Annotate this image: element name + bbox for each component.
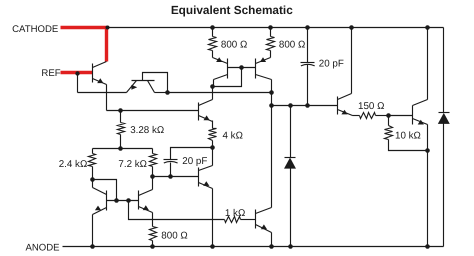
wire 150 out lead [376,115,389,117]
wire mid rail right [168,92,272,94]
transistor QR base bar [138,191,140,210]
junction 2.4k bottom [90,177,95,182]
transistor QL emitter [93,208,107,215]
resistor 1 kOhm [225,217,241,223]
wire Q2 base loop [143,73,168,93]
resistor 2.4 kOhm [89,154,96,167]
junction top bus / Q9 [425,25,430,30]
junction diode branch [288,103,293,108]
wire ref (red highlight) [61,71,93,74]
transistor Q1 emitter arrow [97,78,103,83]
wire 3.28k top lead [120,111,122,123]
wire right edge lower [443,124,445,247]
transistor Q4 base bar [255,210,257,229]
junction mirror-collector node [210,84,215,89]
wire Q8 collector rise [351,28,353,94]
transistor Q4 emitter [256,225,272,233]
resistor 800 Ohm left [209,37,217,51]
transistor Q6 base bar [198,103,200,121]
wire mirror base tie [228,67,256,69]
wire 1k out lead [241,219,256,221]
wire Q2 collector stub [155,92,168,94]
transistor Q2 emitter [127,81,137,93]
transistor Q5 base bar [255,59,257,79]
junction Q2 base-collector [165,90,170,95]
transistor Q7 base bar [198,168,200,187]
svg-text:REF: REF [41,68,60,79]
wire Q6 collector rise [212,87,214,100]
wire Q7 collector rise [212,148,214,166]
junction top bus / 800-2 [268,25,273,30]
transistor Q8 base bar [337,97,339,115]
wire Q4 emitter drop [271,233,273,247]
wire 7.2k bottom lead [152,167,154,177]
transistor Q2 emitter arrow [131,85,137,90]
wire QL emitter drop [92,215,94,247]
wire mirror base drop [213,68,242,87]
wire anode bus [63,246,444,248]
diode D1 (middle) [285,157,296,159]
transistor Q1 collector [93,62,107,68]
junction anode / Q9 [425,244,430,249]
transistor Q7 emitter [199,183,213,189]
wire cap upper lead [171,148,213,160]
transistor Q9 base bar [412,106,414,125]
junction 7.2k bottom [150,174,155,179]
junction 10k / emitter [425,148,430,153]
wire D1 lower lead [290,169,292,247]
wire D1 upper lead [290,106,292,158]
svg-text:150 Ω: 150 Ω [358,101,384,112]
wire Q8 emitter lead [353,115,360,117]
transistor Q5 collector [256,75,272,80]
junction cap tap [168,174,173,179]
svg-text:CATHODE: CATHODE [12,24,58,35]
wire 7.2k top lead [152,149,154,154]
wire 4k top lead [212,121,214,129]
transistor Q1 emitter [93,79,107,85]
svg-text:Equivalent Schematic: Equivalent Schematic [171,3,293,17]
transistor QL collector [93,188,107,195]
wire Q3 collector drop [213,80,215,87]
resistor 800 Ohm bottom [150,227,157,241]
wire 800-1 top lead [212,28,214,37]
transistor Q3 base bar [227,59,229,79]
transistor Q2 base bar [132,80,155,82]
wire C1 lower lead [307,65,309,106]
transistor Q6 emitter [199,116,213,122]
junction anode / Q4 [269,244,274,249]
junction mid rail end [269,90,274,95]
wire output base [389,115,413,117]
svg-text:800 Ω: 800 Ω [161,230,187,241]
transistor Q5 emitter [256,58,271,64]
resistor 150 Ohm [360,113,376,119]
transistor Q3 emitter [213,58,228,64]
wire Q9 emitter drop [427,125,429,247]
transistor Q8 emitter arrow [341,110,347,115]
transistor Q7 emitter arrow [203,181,209,186]
transistor Q7 collector [199,166,213,171]
junction comp branch [305,103,310,108]
transistor Q1 base bar [92,64,94,83]
junction mirror base R [126,198,131,203]
transistor QR emitter arrow [143,205,149,210]
wire cap lower lead [170,163,172,177]
wire Q9 collector rise [427,28,429,100]
svg-text:800 Ω: 800 Ω [221,40,247,51]
junction ref tap [75,71,79,75]
wire right edge upper [443,28,445,113]
wire 2.4k bottom lead [92,167,94,180]
transistor Q3 collector [214,75,228,80]
wire bottom mirror base [107,200,139,202]
transistor Q9 emitter arrow [418,120,424,125]
transistor QL emitter arrow [95,206,101,211]
wire 800-2 top lead [270,28,272,37]
wire QL collector rise [92,180,94,188]
wire rail3 (y=105) [272,105,338,107]
svg-text:2.4 kΩ: 2.4 kΩ [59,159,88,170]
transistor Q2 collector [148,81,155,93]
transistor QR emitter [139,207,153,213]
transistor Q9 emitter [413,119,428,125]
transistor Q3 emitter arrow [216,57,222,62]
wire QR collector rise [152,177,154,190]
svg-text:3.28 kΩ: 3.28 kΩ [130,125,164,136]
diode D2 (right) [439,112,450,114]
transistor Q8 collector [338,94,352,100]
junction mirror base L [114,198,119,203]
junction top bus / 800-1 [210,25,215,30]
transistor Q6 emitter arrow [204,115,210,120]
wire 800b bottom lead [152,241,154,247]
svg-text:20 pF: 20 pF [319,59,344,70]
resistor 4 kOhm [209,129,217,141]
svg-text:7.2 kΩ: 7.2 kΩ [118,159,147,170]
wire base chain [153,176,199,178]
svg-text:4 kΩ: 4 kΩ [223,130,243,141]
wire 10k bottom lead [389,140,428,151]
resistor 800 Ohm right [267,37,275,51]
wire node-B rail (y=111) [107,110,199,112]
svg-text:10 kΩ: 10 kΩ [395,131,421,142]
transistor QL base bar [106,191,108,211]
wire Q1 emitter drop [106,85,108,111]
junction top bus / C1 [305,25,310,30]
resistor 10 kOhm [385,126,393,140]
wire 800-2 bottom lead [270,51,272,58]
wire top bus [107,27,444,29]
transistor Q4 emitter arrow [261,224,267,229]
capacitor C1 20 pF [301,62,315,64]
transistor Q5 emitter arrow [260,57,266,62]
junction red corner [106,26,110,30]
svg-text:ANODE: ANODE [25,243,59,254]
junction divider [118,146,123,151]
resistor 3.28 kOhm [118,123,125,135]
transistor Q6 collector [199,100,213,106]
junction mirror base [239,65,244,70]
wire cathode (red highlight) [61,28,107,62]
transistor Q8 emitter [338,110,353,116]
junction anode / 800b [150,244,155,249]
wire Q7 emitter drop [212,189,214,247]
wire 2.4k-collector loop [93,180,117,201]
transistor Q4 collector [256,208,272,214]
capacitor C2 20 pF [164,159,178,161]
wire 4k bottom lead [212,141,214,148]
junction top bus / Q8 [349,25,354,30]
wire C1 upper lead [307,28,309,63]
junction output base [386,113,391,118]
junction anode / QL [90,244,95,249]
wire 800-1 bottom lead [212,51,214,58]
resistor 7.2 kOhm [150,154,157,167]
wire mid rail left [78,92,127,94]
wire 10k top lead [388,116,390,126]
junction anode / D1 [288,244,293,249]
wire QR emitter drop [152,213,154,227]
junction rail3 start [269,103,274,108]
wire 2.4k top lead [92,149,94,154]
svg-text:1 kΩ: 1 kΩ [225,208,245,219]
wire base drop [129,201,225,220]
svg-text:800 Ω: 800 Ω [279,40,305,51]
wire 3.28k bottom lead [120,135,122,149]
transistor Q9 collector [413,100,428,106]
transistor QR collector [139,190,153,196]
junction anode / Q7 [210,244,215,249]
svg-text:20 pF: 20 pF [182,156,207,167]
wire mirror output column [271,80,273,208]
junction 4k bottom [210,145,215,150]
wire divider link [93,148,153,150]
wire ref node drop [77,74,79,93]
junction 3.28k top [118,108,123,113]
